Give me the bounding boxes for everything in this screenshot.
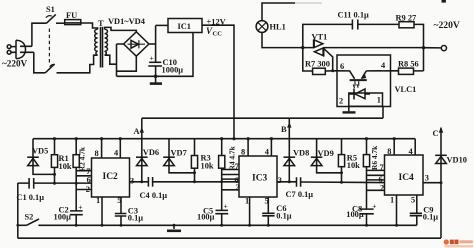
svg-text:2: 2 [236, 183, 240, 192]
svg-text:100μ: 100μ [54, 213, 72, 222]
svg-text:3: 3 [278, 176, 282, 185]
svg-text:IC2: IC2 [103, 172, 119, 182]
svg-text:A: A [134, 127, 140, 136]
svg-text:+: + [150, 54, 154, 63]
svg-text:5: 5 [411, 196, 415, 205]
svg-text:2: 2 [86, 185, 90, 194]
svg-text:VD6: VD6 [143, 148, 159, 157]
svg-text:CC: CC [213, 31, 223, 38]
svg-text:100μ: 100μ [197, 213, 215, 222]
svg-text:C11 0.1μ: C11 0.1μ [338, 11, 370, 20]
svg-text:8: 8 [95, 149, 99, 158]
svg-text:~220V: ~220V [2, 59, 28, 69]
svg-text:FU: FU [66, 11, 77, 20]
svg-text:R8 56: R8 56 [398, 60, 419, 69]
svg-text:0.1μ: 0.1μ [423, 213, 438, 222]
svg-text:2: 2 [339, 97, 343, 106]
svg-text:10k: 10k [347, 161, 360, 170]
svg-text:+: + [372, 202, 376, 211]
svg-text:6: 6 [87, 175, 91, 184]
svg-text:8: 8 [387, 147, 391, 156]
svg-text:0.1μ: 0.1μ [276, 211, 291, 220]
svg-text:3: 3 [130, 177, 134, 186]
svg-text:10k: 10k [201, 161, 214, 170]
svg-text:2: 2 [380, 184, 384, 193]
svg-text:5: 5 [117, 196, 121, 205]
svg-text:1: 1 [96, 196, 100, 205]
svg-text:IC4: IC4 [399, 173, 415, 183]
svg-text:VD8: VD8 [293, 149, 309, 158]
svg-text:R6 4.7k: R6 4.7k [370, 145, 379, 170]
svg-text:IC3: IC3 [252, 174, 268, 184]
svg-text:R7 300: R7 300 [305, 60, 330, 69]
svg-text:C1 0.1μ: C1 0.1μ [16, 193, 44, 202]
svg-text:C: C [433, 129, 439, 138]
svg-text:100μ: 100μ [346, 210, 364, 219]
svg-text:7: 7 [235, 162, 239, 171]
svg-text:S2: S2 [25, 213, 34, 222]
svg-text:0.1μ: 0.1μ [128, 214, 143, 223]
svg-text:+: + [224, 202, 228, 211]
svg-text:VD7: VD7 [171, 149, 187, 158]
svg-text:5: 5 [265, 197, 269, 206]
svg-text:C7 0.1μ: C7 0.1μ [286, 190, 314, 199]
svg-text:T: T [98, 19, 104, 28]
svg-text:+: + [78, 203, 82, 212]
svg-text:C4 0.1μ: C4 0.1μ [140, 191, 168, 200]
svg-text:R2 4.7k: R2 4.7k [78, 146, 87, 171]
svg-text:VD9: VD9 [318, 149, 334, 158]
svg-text:3: 3 [425, 174, 429, 183]
svg-text:VD5: VD5 [32, 147, 48, 156]
svg-text:VLC1: VLC1 [395, 85, 417, 94]
svg-text:1: 1 [245, 197, 249, 206]
svg-text:1: 1 [390, 196, 394, 205]
svg-text:S1: S1 [46, 5, 55, 14]
svg-text:~220V: ~220V [434, 20, 460, 31]
svg-text:7: 7 [380, 163, 384, 172]
svg-text:10k: 10k [59, 162, 72, 171]
svg-text:1: 1 [377, 96, 381, 105]
svg-text:VD1~VD4: VD1~VD4 [108, 17, 146, 26]
svg-text:B: B [281, 125, 287, 134]
svg-text:6: 6 [340, 62, 344, 71]
svg-text:R9 27: R9 27 [396, 14, 417, 23]
svg-text:HL1: HL1 [270, 23, 286, 32]
svg-text:IC1: IC1 [178, 22, 192, 31]
svg-text:VD10: VD10 [447, 156, 467, 165]
svg-text:1000μ: 1000μ [162, 66, 184, 75]
svg-text:8: 8 [241, 148, 245, 157]
